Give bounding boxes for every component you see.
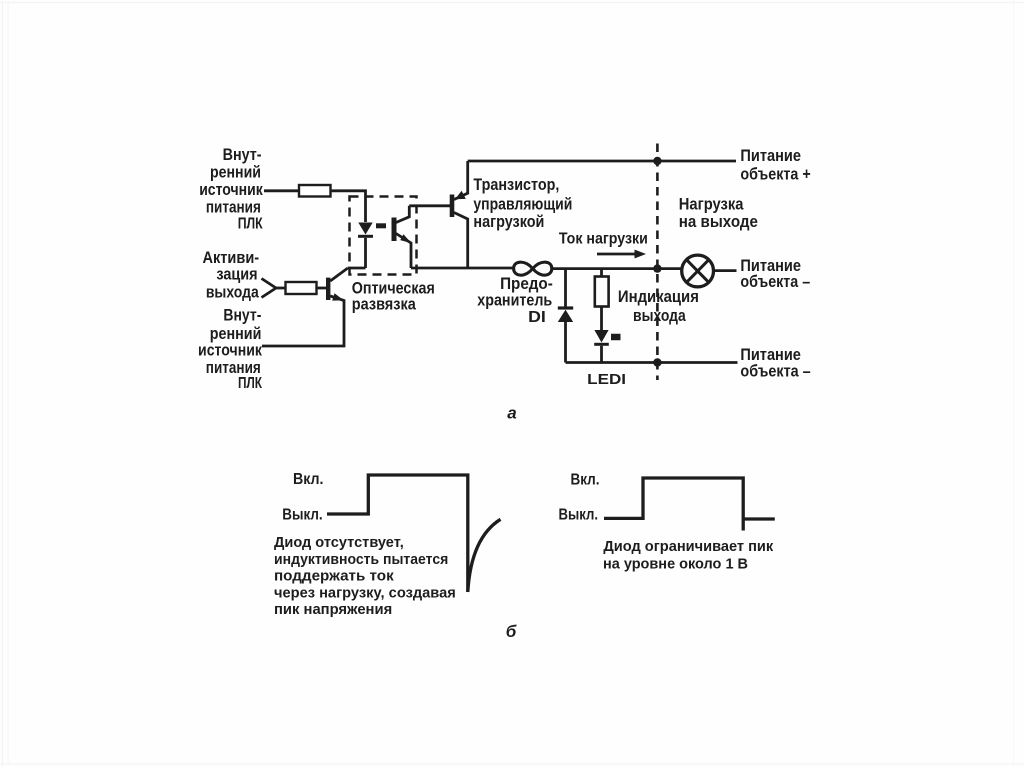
wire R2 to Q1 base: [317, 287, 327, 290]
lamp cross: [687, 260, 709, 283]
transistor Q1 base bar: [326, 278, 330, 300]
svg-text:зация: зация: [216, 266, 257, 284]
diode D1 cathode bar: [558, 306, 573, 309]
waveform left recovery curve: [468, 519, 501, 592]
dashed load line: [656, 144, 659, 381]
svg-text:ренний: ренний: [210, 164, 261, 182]
wire from label to resistor R1: [264, 189, 299, 192]
phototransistor emitter: [396, 234, 411, 269]
waveform right trace: [604, 478, 743, 531]
label: Активизация выхода: [202, 249, 259, 301]
svg-text:Диод отсутствует,: Диод отсутствует,: [274, 534, 404, 551]
waveform right tail: [743, 517, 775, 520]
svg-text:хранитель: хранитель: [477, 291, 552, 309]
Q1 emitter arrow: [332, 293, 344, 300]
svg-text:нагрузкой: нагрузкой: [473, 213, 544, 231]
diode D1 triangle (pointing up): [558, 310, 573, 322]
svg-text:Транзистор,: Транзистор,: [473, 176, 559, 194]
transistor Q2 emitter (top, PNP arrow toward base): [454, 161, 468, 200]
svg-text:выхода: выхода: [206, 284, 260, 302]
svg-text:Питание: Питание: [740, 147, 801, 165]
label: Предохранитель DI: [477, 275, 553, 326]
svg-text:через нагрузку, создавая: через нагрузку, создавая: [274, 584, 456, 601]
svg-text:Вкл.: Вкл.: [571, 472, 600, 489]
wire chevron to R2: [276, 287, 286, 290]
label: Внутренний источник питания ПЛК (top): [199, 146, 263, 233]
phototransistor base bar: [392, 218, 397, 242]
wire resistor R3 branch upper: [600, 269, 603, 277]
phototransistor collector: [396, 206, 409, 223]
fuse F1 lemniscate: [514, 262, 552, 275]
label: Питание объекта - (middle): [740, 257, 810, 291]
svg-text:а: а: [507, 404, 516, 423]
junction node top: [653, 157, 661, 165]
svg-text:объекта –: объекта –: [740, 273, 810, 291]
phototransistor emitter arrow: [400, 234, 411, 243]
label: Индикация выхода: [618, 288, 699, 325]
lamp indicator circle: [682, 255, 714, 287]
resistor R1: [299, 185, 331, 197]
svg-text:Вкл.: Вкл.: [293, 471, 324, 488]
svg-text:Нагрузка: Нагрузка: [679, 196, 744, 214]
svg-text:объекта –: объекта –: [740, 363, 810, 381]
middle rail: fuse to lamp: [552, 267, 682, 270]
label: Транзистор, управляющий нагрузкой: [473, 176, 572, 231]
svg-text:LEDI: LEDI: [587, 371, 626, 388]
wire diode D1 branch lower: [564, 322, 567, 363]
right waveform caption: [603, 538, 774, 572]
wire diode D1 branch upper: [564, 269, 567, 307]
svg-text:Питание: Питание: [740, 346, 801, 364]
svg-text:Диод ограничивает пик: Диод ограничивает пик: [603, 538, 773, 555]
transistor Q1 collector: [330, 268, 347, 281]
Q2 emitter arrow: [455, 191, 466, 200]
wire phototransistor collector to Q2 base: [409, 204, 450, 207]
waveform left trace: [327, 475, 468, 592]
wire LED1 to bottom rail: [600, 346, 603, 363]
svg-text:DI: DI: [528, 309, 546, 326]
junction node bottom: [653, 358, 661, 366]
svg-text:Внут-: Внут-: [223, 146, 262, 164]
svg-text:ПЛК: ПЛК: [238, 216, 263, 233]
optocoupler LED anode triangle: [358, 223, 372, 235]
wire R1 to optocoupler LED: [331, 191, 366, 222]
svg-text:объекта +: объекта +: [740, 165, 810, 183]
bottom rail wire: [566, 361, 738, 364]
svg-text:выхода: выхода: [633, 307, 686, 325]
optocoupler LED cathode bar: [358, 235, 373, 238]
label: Питание объекта - (bottom): [740, 346, 810, 381]
label: Питание объекта +: [740, 147, 810, 183]
LED1 triangle (pointing down): [594, 330, 608, 343]
svg-text:Активи-: Активи-: [202, 249, 259, 267]
load current arrow: [597, 253, 636, 256]
transistor Q2 collector (bottom): [454, 213, 468, 269]
resistor R3: [595, 277, 609, 307]
LED1 light dash: [611, 334, 621, 341]
svg-text:Внут-: Внут-: [223, 307, 261, 325]
dashed optocoupler box: [350, 197, 417, 275]
svg-text:ренний: ренний: [210, 325, 262, 343]
svg-text:управляющий: управляющий: [473, 196, 572, 214]
svg-text:на уровне около 1 В: на уровне около 1 В: [603, 555, 748, 572]
svg-text:пик напряжения: пик напряжения: [274, 601, 392, 618]
junction node middle: [653, 264, 661, 272]
svg-text:б: б: [506, 622, 517, 641]
LED1 cathode bar: [594, 343, 609, 346]
wire LED to Q1 collector: [348, 267, 366, 270]
wire LED cathode down: [364, 238, 367, 268]
svg-text:Ток нагрузки: Ток нагрузки: [559, 231, 648, 248]
label: Нагрузка на выходе: [679, 196, 758, 231]
label: Внутренний источник питания ПЛК (bottom): [198, 307, 263, 393]
svg-text:развязка: развязка: [352, 295, 417, 313]
left waveform caption: [274, 534, 456, 618]
svg-text:индуктивность пытается: индуктивность пытается: [274, 551, 448, 568]
svg-text:питания: питания: [206, 199, 261, 217]
svg-text:Выкл.: Выкл.: [282, 507, 322, 524]
transistor Q2 base bar: [450, 195, 455, 218]
wire R3 to LED1: [600, 307, 603, 331]
middle rail: emitter to fuse: [411, 267, 514, 270]
label: Оптическая развязка: [352, 279, 435, 313]
svg-text:источник: источник: [198, 342, 263, 360]
optocoupler light dash: [376, 223, 386, 228]
svg-text:на выходе: на выходе: [679, 213, 758, 231]
svg-text:Выкл.: Выкл.: [559, 507, 599, 524]
middle rail: lamp to label: [714, 269, 737, 272]
transistor Q1 emitter: [262, 296, 344, 346]
svg-text:ПЛК: ПЛК: [238, 375, 262, 392]
svg-text:источник: источник: [199, 181, 263, 199]
top rail wire: [468, 160, 736, 163]
input chevron arrow: [262, 279, 277, 298]
svg-text:поддержать ток: поддержать ток: [274, 568, 394, 585]
resistor R2: [286, 282, 317, 294]
